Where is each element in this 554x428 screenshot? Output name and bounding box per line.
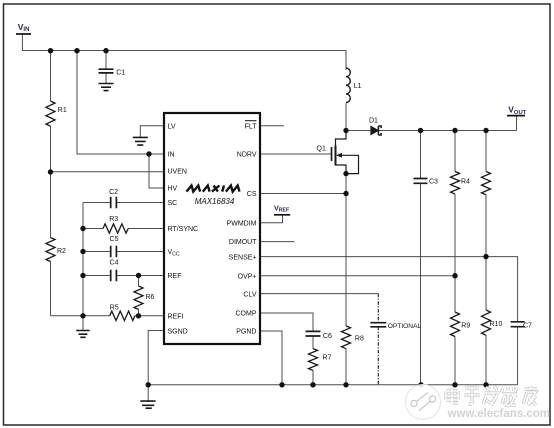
wire R6 leads xyxy=(138,276,140,316)
wire COMP to C6 xyxy=(260,313,313,331)
wire Q1 source to CS to R8 xyxy=(345,174,347,326)
wire bus ground stem xyxy=(82,316,84,331)
wire DIMOUT stub xyxy=(260,241,294,243)
wire VCC line with C5 xyxy=(83,251,164,253)
wire LV to ground xyxy=(140,126,164,138)
svg-text:R8: R8 xyxy=(355,335,364,342)
op-amp U1 MAX16834 IC body xyxy=(164,113,260,344)
svg-text:R10: R10 xyxy=(490,321,503,328)
svg-text:REF: REF xyxy=(168,273,182,280)
node VREF xyxy=(274,204,290,215)
wire NDRV to gate xyxy=(260,153,332,155)
capacitor C5 xyxy=(111,246,117,258)
resistor top of R10 column xyxy=(482,172,491,195)
MAXIM logo xyxy=(187,186,240,192)
wire R7 to rail xyxy=(312,370,314,384)
wire C7 bottom lead xyxy=(517,327,519,385)
svg-text:R4: R4 xyxy=(461,179,470,186)
wire C6 to R7 xyxy=(312,336,314,349)
resistor R3 xyxy=(103,224,128,233)
wire R1 top lead xyxy=(50,51,52,102)
svg-text:RT/SYNC: RT/SYNC xyxy=(168,226,199,233)
svg-text:SENSE+: SENSE+ xyxy=(229,255,257,262)
svg-text:C1: C1 xyxy=(116,70,125,77)
node junction dots xyxy=(48,48,489,387)
svg-text:R9: R9 xyxy=(461,323,470,330)
capacitor optional dashed xyxy=(370,294,386,385)
wire left bus xyxy=(82,203,84,316)
svg-text:SC: SC xyxy=(168,200,178,207)
svg-text:R5: R5 xyxy=(110,305,119,312)
svg-text:C4: C4 xyxy=(110,260,119,267)
svg-text:COMP: COMP xyxy=(236,311,257,318)
svg-text:OVP+: OVP+ xyxy=(238,273,257,280)
wire SGND to bottom rail xyxy=(148,331,164,385)
capacitor C4 xyxy=(111,270,117,282)
wire IN branch xyxy=(77,51,164,155)
ground SGND xyxy=(140,401,155,408)
capacitor C3 xyxy=(414,179,428,184)
svg-text:OPTIONAL: OPTIONAL xyxy=(388,323,422,330)
svg-text:REFI: REFI xyxy=(168,313,184,320)
svg-text:PGND: PGND xyxy=(236,329,256,336)
wire CS line xyxy=(260,193,346,195)
wire REF line with C4 xyxy=(83,275,164,277)
resistor R6 xyxy=(134,286,143,309)
wire SC line with C2 xyxy=(83,202,164,204)
svg-text:CS: CS xyxy=(247,191,257,198)
svg-text:R3: R3 xyxy=(109,216,118,223)
wire R10 column xyxy=(485,131,487,385)
wire D1 anode lead xyxy=(346,130,371,132)
svg-text:Q1: Q1 xyxy=(317,146,326,153)
capacitor C6 xyxy=(306,331,321,336)
diode D1 xyxy=(371,126,381,135)
svg-text:R2: R2 xyxy=(57,248,66,255)
wire C1 leads xyxy=(105,51,107,84)
svg-text:UVEN: UVEN xyxy=(168,169,187,176)
ground C1 xyxy=(99,84,114,91)
wire RT/SYNC line xyxy=(83,228,164,230)
svg-text:CLV: CLV xyxy=(243,292,256,299)
wire UVEN line xyxy=(51,171,165,173)
IC pin labels right xyxy=(227,123,258,335)
resistor R9 xyxy=(451,312,460,337)
wire HV branch xyxy=(149,154,164,188)
resistor R4 xyxy=(451,172,460,195)
wire bottom rail xyxy=(148,384,517,386)
ground LV xyxy=(133,137,148,145)
node VIN xyxy=(16,22,31,34)
svg-text:C2: C2 xyxy=(109,189,118,196)
watermark CJK text 电子发烧友 xyxy=(446,386,537,405)
svg-text:SGND: SGND xyxy=(168,329,188,336)
wire D1 cathode to VOUT rail xyxy=(378,130,516,132)
wire REFI line with R5 xyxy=(51,315,165,317)
wire VIN stem and top rail to L1 xyxy=(22,34,346,70)
inductor L1 xyxy=(346,68,350,102)
svg-text:D1: D1 xyxy=(369,118,378,125)
wire R4 R9 column xyxy=(454,131,456,385)
wire UVEN junction to R2 xyxy=(50,172,52,238)
wire CLV line xyxy=(260,293,378,295)
resistor R2 xyxy=(46,238,55,262)
svg-text:R7: R7 xyxy=(323,354,332,361)
wire R1 bottom to UVEN junction xyxy=(50,126,52,172)
resistor R7 xyxy=(309,349,318,371)
svg-text:FLT: FLT xyxy=(245,123,258,130)
wire SENSE+ line to C7 xyxy=(260,257,518,322)
svg-text:C7: C7 xyxy=(523,322,532,329)
capacitor C1 xyxy=(99,69,114,73)
resistor R5 xyxy=(110,311,135,320)
svg-text:NDRV: NDRV xyxy=(237,152,257,159)
wire PWMDIM to VREF xyxy=(260,215,283,223)
wire FLT stub xyxy=(260,125,284,127)
FLT overline xyxy=(245,120,257,122)
resistor R10 xyxy=(482,310,491,335)
wire R8 to rail xyxy=(345,349,347,385)
value labels xyxy=(57,70,532,362)
svg-text:C6: C6 xyxy=(323,333,332,340)
capacitor C2 xyxy=(111,197,117,209)
resistor R8 xyxy=(342,326,351,349)
wire PGND to rail xyxy=(260,331,282,385)
node VOUT xyxy=(507,105,527,116)
svg-text:DIMOUT: DIMOUT xyxy=(229,239,257,246)
wire L1 bottom to D1 junction xyxy=(345,103,347,130)
watermark logo circle xyxy=(406,385,441,420)
svg-text:IN: IN xyxy=(168,152,175,159)
svg-text:R1: R1 xyxy=(58,107,67,114)
svg-text:PWMDIM: PWMDIM xyxy=(227,220,257,227)
wire R10 upper lead xyxy=(485,257,487,310)
svg-text:HV: HV xyxy=(168,186,178,193)
transistor Q1 xyxy=(332,131,359,174)
wire OVP+ line xyxy=(260,275,455,277)
svg-text:L1: L1 xyxy=(354,83,362,90)
wire R2 bottom to REFI line xyxy=(50,262,52,316)
IC pin labels left xyxy=(168,123,199,335)
svg-text:MAX16834: MAX16834 xyxy=(195,197,235,206)
svg-text:LV: LV xyxy=(168,123,176,130)
svg-text:R6: R6 xyxy=(146,294,155,301)
svg-text:www.elecfans.com: www.elecfans.com xyxy=(447,408,550,420)
wire C3 column xyxy=(420,131,422,385)
svg-text:C3: C3 xyxy=(429,178,438,185)
capacitor C7 xyxy=(511,322,525,327)
resistor R1 xyxy=(46,101,55,126)
wire VOUT stem xyxy=(516,116,518,131)
svg-text:C5: C5 xyxy=(110,236,119,243)
ground left bus xyxy=(76,331,90,338)
wire SGND ground stem xyxy=(147,385,149,401)
